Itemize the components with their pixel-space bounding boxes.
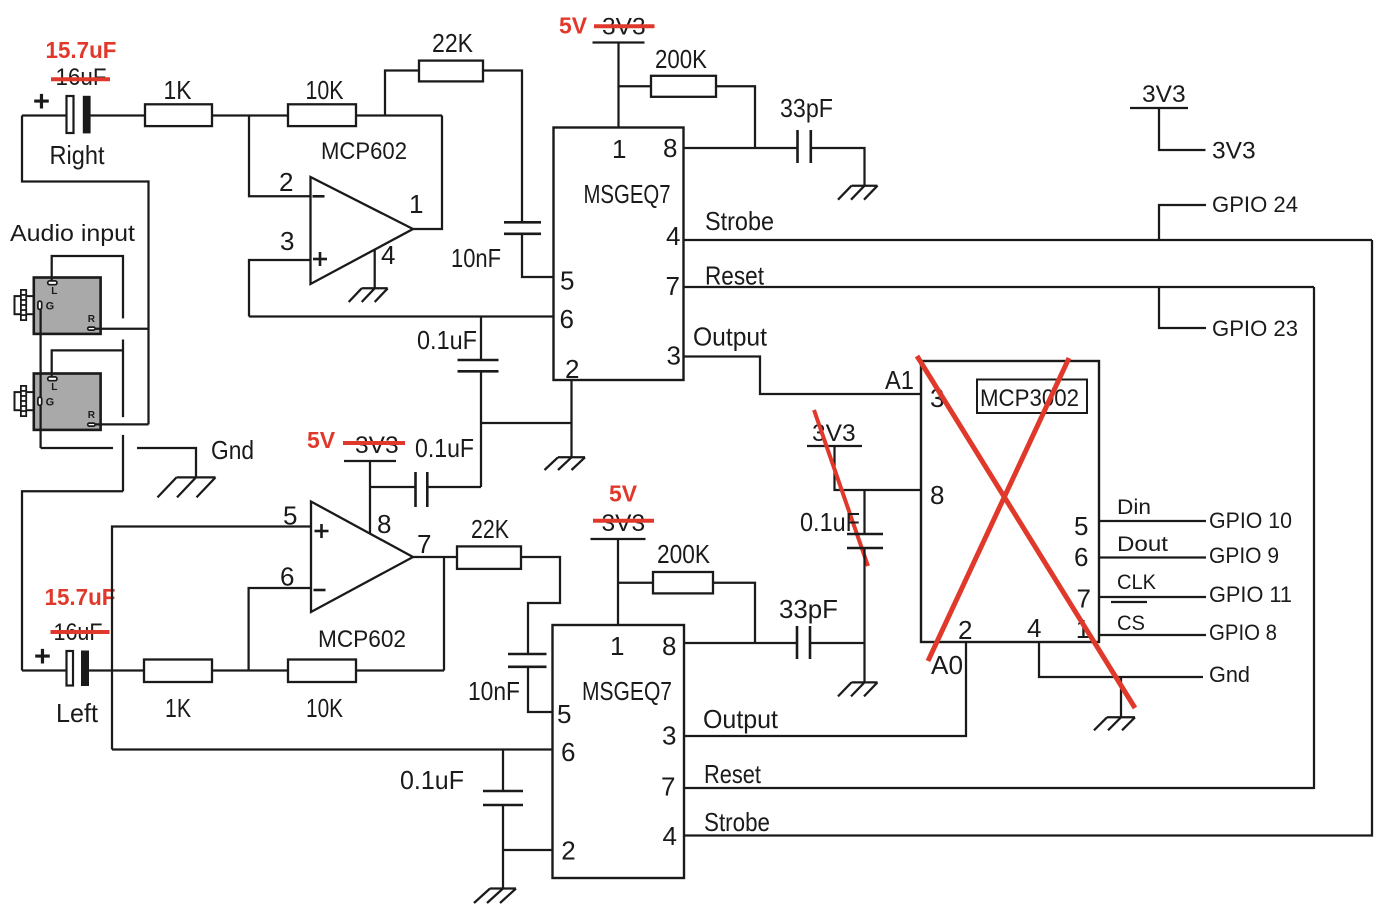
wire 22K right lead down to 10nF (483, 71, 522, 223)
svg-text:CS: CS (1117, 612, 1145, 635)
svg-text:1K: 1K (164, 75, 193, 105)
svg-text:10nF: 10nF (468, 676, 520, 706)
wire right-channel input down-left (22, 116, 149, 425)
wire 0.1uF down node (480, 371, 482, 487)
resistor 200K (top) (651, 76, 716, 97)
svg-text:R: R (88, 410, 96, 421)
svg-text:33pF: 33pF (779, 594, 838, 624)
svg-text:8: 8 (663, 133, 677, 163)
wire cap-right left lead (22, 114, 67, 116)
svg-text:5V: 5V (307, 427, 336, 453)
svg-text:3V3: 3V3 (1212, 138, 1256, 165)
resistor 22K (left) (457, 546, 521, 569)
svg-text:7: 7 (666, 271, 680, 301)
wire J2 L pin to bus (52, 350, 123, 378)
svg-text:R: R (88, 314, 96, 325)
svg-text:10nF: 10nF (451, 243, 501, 273)
wire Gnd segment 1 (41, 447, 113, 449)
svg-text:L: L (51, 286, 57, 297)
svg-text:7: 7 (417, 529, 431, 559)
svg-text:0.1uF: 0.1uF (400, 765, 464, 795)
capacitor 33pF (lower) (797, 626, 810, 659)
wire 10nF to MSGEQ7 pin5 (522, 234, 554, 277)
capacitor 0.1uF (lower bias) (483, 791, 523, 805)
svg-text:MSGEQ7: MSGEQ7 (582, 676, 672, 706)
svg-text:6: 6 (561, 737, 575, 767)
wire MCP3002 pin1 to GPIO8 (1099, 634, 1206, 636)
red X over MCP3002 line 2 (928, 358, 1069, 661)
svg-text:22K: 22K (471, 514, 510, 544)
svg-text:Dout: Dout (1117, 533, 1168, 556)
svg-text:L: L (51, 382, 57, 393)
capacitor 10nF (left) (508, 654, 547, 667)
wire 22K left lead (385, 71, 419, 116)
svg-text:15.7uF: 15.7uF (46, 37, 117, 63)
svg-text:MSGEQ7: MSGEQ7 (584, 179, 671, 209)
wire MSGEQ7-2 pin8 to 33pF (684, 642, 797, 644)
svg-text:1K: 1K (165, 693, 192, 723)
IC MSGEQ7 #2 body (553, 625, 685, 878)
wire 22K right to 10nF (left) (521, 557, 560, 654)
wire power to MSGEQ7-2 pin1 (617, 539, 619, 625)
op-amp MCP602 (right) (311, 177, 414, 284)
power bar 5V (MSGEQ7-1) (593, 41, 645, 43)
svg-text:Output: Output (703, 704, 779, 734)
svg-text:Reset: Reset (704, 759, 762, 789)
svg-text:GPIO 9: GPIO 9 (1209, 543, 1279, 568)
svg-text:Left: Left (56, 698, 99, 728)
svg-text:G: G (46, 397, 55, 409)
red strikethrough 3V3 (MSGEQ7-1) (594, 24, 655, 28)
svg-text:Gnd: Gnd (211, 435, 254, 465)
resistor 10K (left) (288, 660, 356, 683)
wire J1 R pin to bus (95, 328, 148, 330)
wire op-amp pin3 to bias rail (249, 260, 311, 317)
svg-text:+: + (34, 641, 51, 673)
audio jack J2 body (bottom) (15, 374, 101, 430)
red strikethrough 3V3 (op-amp left) (343, 441, 405, 445)
wire node to MSGEQ7-2 pin2 (503, 849, 553, 851)
svg-text:7: 7 (1077, 584, 1091, 614)
svg-text:2: 2 (279, 167, 293, 197)
svg-text:4: 4 (381, 240, 395, 270)
wire rail to 0.1uF (lower) (502, 750, 504, 792)
wire MCP3002 pin6 to GPIO9 (1099, 556, 1206, 558)
svg-text:5V: 5V (609, 481, 638, 507)
svg-text:A0: A0 (931, 650, 963, 680)
wire power to op-amp pin8 (369, 461, 371, 534)
red strikethrough 3V3 (MSGEQ7-2) (593, 519, 654, 523)
audio jack J2 pins (bottom) (38, 377, 96, 426)
svg-text:MCP602: MCP602 (318, 626, 406, 653)
wire node to op-amp pin2 (249, 116, 311, 197)
wire 0.1uF MCP3002 to ground (863, 548, 865, 682)
bias rail left channel (112, 748, 552, 750)
wire 1K to 10K (left ch) (212, 669, 288, 671)
audio jack J1 pins (top) (38, 281, 96, 330)
svg-text:0.1uF: 0.1uF (800, 507, 860, 537)
power bar 5V (MSGEQ7-2) (591, 538, 646, 540)
svg-text:5: 5 (1074, 511, 1088, 541)
wire Reset bus down right (684, 287, 1314, 788)
svg-text:4: 4 (1027, 613, 1041, 643)
svg-text:4: 4 (666, 221, 680, 251)
wire op-amp pin4 to ground (374, 249, 376, 288)
wire 10K to feedback node (356, 114, 442, 116)
wire GPIO23 tap (1159, 287, 1206, 328)
svg-text:1: 1 (612, 134, 626, 164)
ground (MSGEQ7-1 pin2) (545, 457, 586, 470)
svg-text:Output: Output (693, 322, 768, 352)
svg-text:1: 1 (409, 189, 423, 219)
svg-text:200K: 200K (657, 539, 711, 569)
wire MSGEQ7-1 pin8 to 33pF (684, 147, 798, 149)
wire feedback vertical to op-amp output (413, 116, 442, 230)
wire cap-right to 1K (91, 114, 146, 116)
svg-text:A1: A1 (885, 365, 914, 395)
wire 200K to pin8 net (716, 86, 755, 148)
wire L bus segment 3 (122, 435, 124, 491)
ground (33pF top) (838, 186, 878, 200)
svg-text:3: 3 (667, 341, 681, 371)
svg-text:7: 7 (661, 772, 675, 802)
wire Strobe bus (top) (684, 239, 1373, 241)
wire cap-left to 1K (89, 669, 144, 671)
capacitor 0.1uF (right bias) (458, 360, 499, 371)
IC MCP3002 body (921, 361, 1099, 642)
audio jack J1 body (top) (15, 278, 101, 334)
wire 0.1uF mid to bias node (427, 486, 481, 488)
wire cap-left left lead (22, 669, 67, 671)
wire feedback vertical (left) (443, 558, 445, 671)
bias rail right channel (249, 315, 554, 317)
ground (op-amp right pin4) (349, 288, 388, 302)
svg-text:5: 5 (283, 501, 297, 531)
wire node to op-amp pin6 (249, 588, 311, 671)
wire power tap to 200K (lower) (618, 582, 653, 584)
wire 200K lower to pin8 net (713, 583, 755, 643)
power bar 3V3 (top right) (1130, 107, 1188, 109)
svg-text:5: 5 (560, 266, 574, 296)
svg-text:200K: 200K (655, 44, 708, 74)
svg-text:3: 3 (280, 226, 294, 256)
resistor 22K (right) (419, 61, 483, 82)
svg-text:GPIO 8: GPIO 8 (1209, 620, 1277, 645)
resistor 1K (right) (145, 104, 212, 126)
wire Reset bus (top) (684, 286, 1315, 288)
svg-text:6: 6 (280, 562, 294, 592)
wire node to MSGEQ7 pin2 stem (481, 422, 572, 424)
svg-text:3V3: 3V3 (1142, 81, 1186, 108)
wire 0.1uF lower to ground node (502, 805, 504, 889)
svg-text:15.7uF: 15.7uF (45, 584, 116, 610)
capacitor 10nF (right) (504, 222, 541, 234)
capacitor 16uF right (polarized) (67, 96, 91, 134)
wire L bus segment 2 (122, 340, 124, 418)
ground (MSGEQ7-2 bias) (474, 889, 516, 904)
red strikethrough over 16uF (left) (51, 630, 110, 634)
svg-text:10K: 10K (306, 75, 345, 105)
wire MCP3002 pin7 to GPIO11 (1099, 596, 1206, 598)
wire 10K to feedback node (left) (356, 669, 444, 671)
svg-text:Din: Din (1117, 496, 1151, 519)
wire MSGEQ7-1 pin2 to ground (570, 380, 572, 457)
svg-text:0.1uF: 0.1uF (417, 325, 477, 355)
svg-text:MCP3002: MCP3002 (980, 385, 1079, 412)
svg-text:Gnd: Gnd (1209, 662, 1250, 687)
op-amp MCP602 (left) (311, 502, 413, 613)
svg-text:3V3: 3V3 (355, 432, 399, 459)
svg-text:33pF: 33pF (780, 93, 833, 123)
svg-text:6: 6 (560, 304, 574, 334)
wire J2 R pin to bus (95, 423, 148, 425)
wire 10nF to MSGEQ7-2 pin5 (528, 667, 552, 712)
svg-text:3: 3 (662, 721, 676, 751)
capacitor 33pF (top) (798, 130, 811, 163)
svg-text:GPIO 11: GPIO 11 (1209, 582, 1292, 607)
wire Gnd segment 2 (137, 448, 196, 477)
svg-text:0.1uF: 0.1uF (415, 433, 474, 463)
svg-text:GPIO 10: GPIO 10 (1209, 508, 1292, 533)
wire MCP3002 pin4 to Gnd (1039, 642, 1203, 677)
resistor 200K (lower) (653, 572, 713, 593)
wire power tap to 0.1uF mid (370, 486, 416, 488)
resistor 1K (left) (144, 660, 212, 683)
svg-text:3V3: 3V3 (602, 510, 646, 537)
wire MCP3002 pin5 to GPIO10 (1099, 520, 1206, 522)
wire node to op-amp pin5 (112, 527, 311, 750)
svg-text:Strobe: Strobe (705, 206, 774, 236)
svg-text:G: G (46, 301, 55, 313)
wire left-channel to lower cap (22, 491, 123, 670)
svg-text:2: 2 (958, 615, 972, 645)
svg-text:2: 2 (565, 354, 579, 384)
wire 3V3 to MCP3002 pin8 (835, 446, 922, 490)
red slash over 3V3 (MCP3002) (814, 410, 868, 566)
wire 1K to 10K with node (212, 114, 288, 116)
wire 33pF to ground (811, 148, 865, 186)
red strikethrough over 16uF (right) (51, 77, 110, 81)
capacitor 0.1uF (mid) (416, 472, 428, 507)
svg-text:8: 8 (662, 631, 676, 661)
wire 3V3 bar to 3V3 pin (1159, 108, 1206, 150)
power bar 5V (op-amp left) (344, 460, 396, 462)
resistor 10K (right) (288, 104, 356, 126)
wire Gnd to ground symbol (1120, 677, 1122, 717)
power bar 3V3 (MCP3002) (807, 445, 862, 447)
svg-text:GPIO 24: GPIO 24 (1212, 192, 1298, 217)
svg-text:Right: Right (50, 140, 106, 170)
overline of CS (1111, 601, 1147, 603)
MCP3002 label box (977, 380, 1087, 414)
wire bias rail to 0.1uF (top) (480, 317, 482, 361)
wire GPIO24 tap (1159, 205, 1206, 240)
wire power to MSGEQ7-1 pin1 (617, 43, 619, 128)
svg-text:8: 8 (377, 509, 391, 539)
svg-text:5: 5 (557, 699, 571, 729)
wire J1 L pin up-right (52, 256, 123, 318)
svg-text:Strobe: Strobe (704, 807, 770, 837)
ground (audio Gnd) (158, 477, 216, 497)
svg-text:6: 6 (1074, 542, 1088, 572)
svg-text:CLK: CLK (1117, 571, 1156, 594)
svg-text:4: 4 (663, 821, 677, 851)
svg-text:10K: 10K (306, 693, 344, 723)
svg-text:2: 2 (561, 836, 575, 866)
svg-text:GPIO 23: GPIO 23 (1212, 316, 1298, 341)
svg-text:5V: 5V (559, 13, 588, 39)
capacitor 0.1uF (MCP3002) (847, 534, 883, 548)
wire G bus down (39, 305, 41, 448)
svg-text:+: + (33, 86, 50, 118)
wire pin8 net to 0.1uF (863, 490, 865, 534)
red X over MCP3002 line 1 (917, 356, 1135, 708)
svg-text:8: 8 (930, 480, 944, 510)
wire op-amp output to 22K (413, 556, 457, 558)
svg-text:Audio input: Audio input (10, 220, 136, 246)
svg-text:1: 1 (610, 631, 624, 661)
wire power tap to 200K (619, 85, 652, 87)
IC MSGEQ7 #1 body (554, 128, 684, 381)
capacitor 16uF left (polarized) (67, 651, 90, 687)
wire Output lower to MCP3002 pin2 (684, 642, 966, 736)
ground (33pF lower) (838, 682, 878, 696)
wire Output top to MCP3002 pin3 (684, 357, 922, 395)
svg-text:22K: 22K (432, 28, 474, 58)
svg-text:MCP602: MCP602 (321, 138, 407, 165)
wire Strobe bus down right (684, 240, 1372, 836)
ground (MCP3002 pin4) (1094, 717, 1135, 730)
wire 33pF lower to ground node (810, 642, 865, 644)
